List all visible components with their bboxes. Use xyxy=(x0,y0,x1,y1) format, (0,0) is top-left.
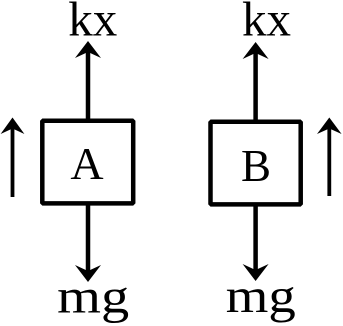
force arrow kx on B xyxy=(243,42,269,120)
force arrow mg on A xyxy=(75,205,101,282)
svg-text:mg: mg xyxy=(226,268,296,323)
force arrow kx on A xyxy=(75,41,101,119)
svg-text:kx: kx xyxy=(242,0,291,47)
svg-text:B: B xyxy=(241,141,271,191)
block B xyxy=(211,122,301,205)
svg-text:A: A xyxy=(70,138,103,189)
svg-text:kx: kx xyxy=(68,0,117,47)
block A xyxy=(42,121,133,204)
label kx (B) xyxy=(242,0,291,47)
label kx (A) xyxy=(68,0,117,47)
label A xyxy=(70,138,103,189)
direction arrow left of A xyxy=(1,118,25,198)
label mg (A) xyxy=(57,269,129,324)
svg-text:mg: mg xyxy=(57,269,129,324)
direction arrow right of B xyxy=(317,118,342,197)
label mg (B) xyxy=(226,268,296,323)
force arrow mg on B xyxy=(243,206,269,281)
label B xyxy=(241,141,271,191)
